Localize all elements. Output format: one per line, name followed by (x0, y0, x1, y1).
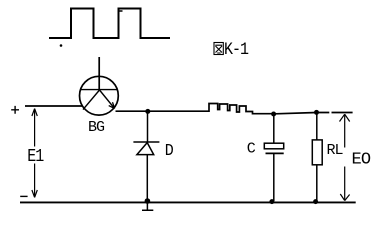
speck dot (60, 44, 63, 47)
svg-text:RL: RL (327, 142, 344, 159)
inductor L (205, 104, 272, 114)
node junction diode top (145, 109, 150, 114)
figure label 图 glyph (214, 43, 223, 55)
bottom wire (20, 201, 356, 203)
resistor RL (312, 113, 322, 202)
svg-text:D: D (165, 141, 174, 160)
svg-text:BG: BG (88, 119, 105, 136)
square wave drive signal (49, 9, 170, 39)
wire top-left (25, 105, 82, 107)
node junction RL bottom (313, 199, 318, 204)
svg-text:E1: E1 (27, 147, 44, 168)
minus terminal (20, 195, 27, 197)
node junction capacitor bottom (269, 199, 274, 204)
plus terminal (11, 106, 19, 114)
wire inductor node to RL node (276, 113, 353, 114)
ground (145, 198, 151, 204)
EO measurement arrow (340, 114, 350, 200)
node junction RL top (314, 110, 319, 115)
svg-text:K-1: K-1 (224, 40, 248, 59)
node junction capacitor top (271, 112, 276, 117)
E1 measurement arrow (32, 109, 37, 198)
svg-text:EO: EO (352, 151, 371, 170)
diode D (133, 112, 159, 201)
wire transistor to inductor (116, 110, 206, 112)
transistor Q BG (80, 57, 119, 115)
capacitor C (264, 114, 283, 201)
svg-text:C: C (247, 141, 256, 158)
tick on second pulse (119, 10, 123, 12)
